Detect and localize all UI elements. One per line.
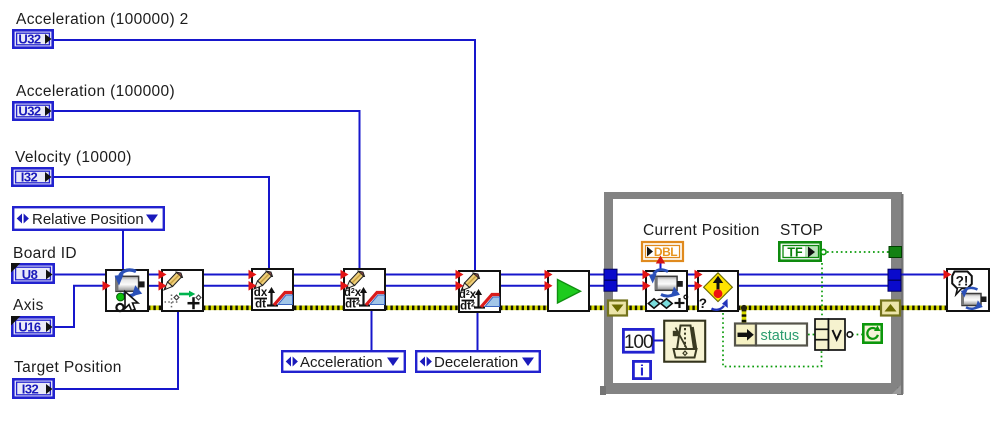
icon8 input 2 (required input arrow) [695, 281, 703, 291]
VI icon: Read Position (motor/glasses) [646, 270, 688, 311]
wire Axis to icon1 [54, 286, 106, 327]
tunnel: STOP boolean (right border, green) [889, 247, 902, 258]
VI icon: Load Target Position (pencil/move) [162, 270, 203, 311]
svg-text:dx: dx [254, 287, 268, 299]
Wait Until Next ms Multiple (metronome) [664, 321, 705, 362]
Or node [815, 319, 845, 350]
loop iteration terminal i [633, 361, 650, 379]
tunnel: axis (left border) [604, 280, 617, 291]
svg-text:Acceleration (100000): Acceleration (100000) [16, 83, 175, 100]
control terminal I32 Target Position [13, 379, 53, 397]
svg-text:status: status [761, 328, 800, 344]
VI icon: Load Deceleration (d2x/dt2 ramp) [459, 271, 500, 313]
wire icon4 bottom to Acceleration ring [371, 310, 373, 351]
svg-text:I32: I32 [21, 170, 38, 185]
wire axis icon7-icon8 [687, 285, 698, 287]
wire resource icon3-icon4 [294, 274, 344, 276]
wire ring to icon1 top [122, 230, 124, 270]
svg-text:U16: U16 [18, 320, 41, 335]
svg-text:TF: TF [787, 246, 803, 260]
wire Board ID to icon1 [54, 274, 106, 276]
wire axis icon3-icon4 [294, 285, 344, 287]
svg-text:Board ID: Board ID [13, 245, 77, 262]
icon8 input 1 (required input arrow) [695, 270, 703, 280]
icon1 axis input (required input arrow) [103, 281, 111, 291]
wire error icon4-icon5 (error cluster, yellow/black dashed) [385, 305, 459, 310]
svg-text:Deceleration: Deceleration [434, 354, 518, 371]
svg-text:Relative Position: Relative Position [32, 211, 144, 228]
wire axis icon2-icon3 [203, 285, 253, 287]
wire resource icon1-icon2 [148, 274, 162, 276]
svg-text:i: i [640, 363, 644, 380]
wire error icon6-left shift register (error cluster, yellow/black dashed) [589, 305, 612, 310]
VI icon: Start Motion (green play triangle) [548, 271, 589, 311]
svg-text:Target Position: Target Position [14, 359, 122, 376]
icon4 input 2 (required input arrow) [341, 281, 349, 291]
wire resource icon6-tunnel [589, 274, 606, 276]
wire axis tunnel-icon7 [610, 285, 646, 287]
VI icon: Motion Error Handler (?! bubble + motor) [947, 269, 989, 311]
wire move complete to Or (boolean, dotted green) [723, 313, 822, 367]
tunnel: axis (right border) [888, 280, 901, 291]
svg-text:?!: ?! [956, 274, 969, 289]
wire U32-2 to Load Accel 2 top [53, 40, 475, 270]
svg-text:U32: U32 [18, 32, 41, 47]
wire error icon3-icon4 (error cluster, yellow/black dashed) [294, 305, 344, 310]
numeric constant 100 [623, 329, 653, 353]
icon7 input 2 (required input arrow) [643, 281, 651, 291]
wire resource icon8-right tunnel [738, 274, 896, 276]
wire error icon2-icon3 (error cluster, yellow/black dashed) [203, 305, 253, 310]
Or output dot [847, 332, 852, 337]
loop condition terminal (continue if true) [863, 324, 881, 342]
error wire junction [741, 305, 747, 311]
wire axis icon1-icon2 [148, 285, 162, 287]
svg-text:I32: I32 [22, 382, 39, 397]
wire U32 to Load Accel top [53, 111, 360, 268]
wire resource icon4-icon5 [385, 274, 459, 276]
icon9 error input (required input arrow) [944, 270, 952, 280]
svg-text:Velocity (10000): Velocity (10000) [15, 149, 132, 166]
wire STOP to loop tunnel (boolean, dotted green) [827, 251, 890, 253]
wire axis icon8-right tunnel [738, 285, 896, 287]
icon5 input 1 (required input arrow) [456, 270, 464, 280]
icon3 input 2 (required input arrow) [249, 281, 257, 291]
tunnel: resource (right border) [888, 269, 901, 280]
VI icon: Check Move Complete (yellow diamond) [698, 271, 738, 311]
wire error icon5-icon6 (error cluster, yellow/black dashed) [500, 305, 548, 310]
wire 100 to wait [653, 340, 664, 342]
wire error icon8-right SR (error cluster, yellow/black dashed) [738, 305, 884, 310]
icon6 input 2 (required input arrow) [545, 281, 553, 291]
svg-text:Acceleration: Acceleration [300, 354, 383, 371]
wire error icon1-icon2 (error cluster, yellow/black dashed) [148, 305, 162, 310]
wire I32 velocity to Load Velocity top [53, 177, 269, 268]
unbundle by name: status [735, 324, 807, 346]
svg-text:DBL: DBL [654, 245, 677, 259]
right shift register (error) [881, 301, 900, 316]
wire resource icon7-icon8 [687, 274, 698, 276]
VI icon: Load Acceleration (d2x/dt2 ramp) [344, 269, 385, 311]
svg-text:U32: U32 [18, 104, 41, 119]
wire icon5 bottom to Deceleration ring [477, 312, 479, 351]
svg-text:?: ? [699, 296, 707, 311]
VI icon: Initialize Controller (motor/cursor) [106, 270, 148, 311]
control terminal U32 Acceleration [13, 102, 52, 119]
wire error right SR-icon9 (error cluster, yellow/black dashed) [896, 305, 947, 310]
svg-text:Axis: Axis [13, 297, 44, 314]
icon6 input 1 (required input arrow) [545, 270, 553, 280]
while loop border [600, 192, 904, 395]
ring constant Relative Position [13, 207, 164, 230]
indicator terminal DBL Current Position [642, 242, 683, 261]
icon2 input 1 (required input arrow) [159, 270, 167, 280]
ring constant Acceleration [282, 351, 405, 372]
wire Target Position to icon2 bottom [54, 312, 178, 389]
left shift register (error) [608, 301, 627, 316]
icon7 input 1 (required input arrow) [643, 270, 651, 280]
control terminal U16 Axis [11, 316, 54, 336]
icon4 input 1 (required input arrow) [341, 270, 349, 280]
wire STOP down to Or input (boolean, dotted green) [821, 263, 823, 319]
svg-text:dt: dt [255, 299, 266, 311]
control terminal U32 Acceleration 2 [13, 30, 52, 47]
wire axis icon6-tunnel [589, 285, 606, 287]
svg-text:U8: U8 [22, 267, 38, 282]
svg-text:Acceleration (100000) 2: Acceleration (100000) 2 [16, 11, 189, 28]
wire icon7 to DBL [660, 261, 662, 270]
VI icon: Load Velocity (dx/dt ramp) [252, 269, 293, 311]
wire Or to condition terminal (boolean, dotted green) [852, 334, 863, 336]
wire axis icon5-icon6 [500, 285, 548, 287]
icon2 input 2 (required input arrow) [159, 281, 167, 291]
tunnel: resource (left border) [604, 269, 617, 280]
control terminal U8 Board ID [11, 263, 54, 283]
svg-text:Current Position: Current Position [643, 222, 760, 239]
wire error branch to unbundle (error cluster, yellow/black dashed) [742, 309, 747, 323]
control terminal TF STOP [779, 242, 826, 260]
ring constant Deceleration [416, 351, 540, 372]
wire resource right tunnel-icon9 [898, 274, 947, 276]
wire error icon7-icon8 (error cluster, yellow/black dashed) [687, 305, 698, 310]
svg-text:STOP: STOP [780, 222, 823, 239]
wire axis icon4-icon5 [385, 285, 459, 287]
svg-text:100: 100 [624, 332, 653, 353]
icon5 input 2 (required input arrow) [456, 281, 464, 291]
wire resource tunnel-icon7 [610, 274, 646, 276]
control terminal I32 Velocity [12, 168, 52, 185]
wire error left SR-icon7 (error cluster, yellow/black dashed) [624, 305, 646, 310]
wire unbundle status to Or (boolean, dotted green) [808, 334, 815, 336]
wire resource icon5-icon6 [500, 274, 548, 276]
wire resource icon2-icon3 [203, 274, 253, 276]
coercion arrow into DBL [656, 256, 665, 264]
icon3 input 1 (required input arrow) [249, 270, 257, 280]
